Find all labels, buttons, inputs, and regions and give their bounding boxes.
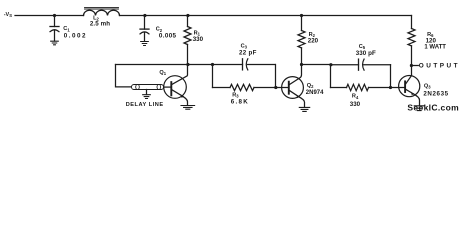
wire collector node line Q1 (y=64) [116, 64, 243, 66]
ground below C1 [51, 41, 59, 45]
wire top rail left segment [15, 15, 84, 17]
svg-text:0.005: 0.005 [159, 32, 177, 39]
capacitor C2 [140, 16, 177, 42]
junction C2 tap on rail [143, 14, 146, 17]
capacitor C1 [50, 16, 87, 42]
wire Q2 collector node to C5-R4 block [302, 64, 331, 66]
resistor R3 [230, 84, 254, 105]
svg-text:220: 220 [308, 37, 319, 44]
junction C5-R4 block left tee [329, 63, 332, 66]
transistor Q3 [399, 75, 449, 105]
inductor L2 [84, 7, 120, 27]
wire to Q3 base [391, 87, 405, 89]
wire to Q2 base [276, 87, 289, 89]
svg-text:R4: R4 [352, 94, 359, 100]
wire C5-R4 block right bar [390, 65, 392, 88]
wire OUTPUT node to Q3 collector [411, 66, 413, 76]
capacitor C3 [239, 43, 257, 70]
wire R4 right lead [369, 87, 391, 89]
transistor Q1 [159, 65, 187, 106]
wire right rail drop to R6 [411, 16, 413, 29]
svg-text:2N974: 2N974 [306, 90, 324, 96]
svg-text:Q2: Q2 [307, 83, 314, 89]
wire C5 right lead [364, 64, 391, 66]
wire delay line center tap [146, 90, 148, 95]
svg-text:0.002: 0.002 [64, 33, 87, 40]
svg-text:C3: C3 [241, 43, 248, 49]
resistor R4 [347, 84, 369, 108]
resistor R2 [298, 16, 319, 65]
wire delay line loop (left drop) [116, 65, 132, 87]
svg-text:330 pF: 330 pF [356, 50, 376, 57]
resistor R1 [184, 16, 204, 65]
junction R2 bottom / Q2 collector node [300, 63, 303, 66]
svg-text:6.8K: 6.8K [231, 99, 249, 106]
wire C3-R3 block left bar [212, 65, 214, 88]
wire R4 left lead [331, 87, 347, 89]
svg-text:22 pF: 22 pF [239, 50, 257, 57]
svg-text:C1: C1 [63, 26, 70, 32]
node OUTPUT label [419, 62, 460, 69]
watermark SeekIC.com [407, 102, 459, 112]
transistor Q2 [282, 65, 325, 107]
ground below Q3 emitter [414, 106, 424, 111]
wire C5 left lead [331, 64, 359, 66]
junction R1 top on rail [186, 14, 189, 17]
wire output tick [412, 65, 419, 67]
svg-text:OUTPUT: OUTPUT [419, 62, 460, 69]
junction R2 top on rail [300, 14, 303, 17]
svg-text:330: 330 [193, 36, 204, 43]
svg-text:1 WATT: 1 WATT [424, 45, 446, 51]
junction OUTPUT node [410, 64, 413, 67]
junction C5-R4 block right / Q3 base node [389, 86, 392, 89]
svg-text:2N2635: 2N2635 [423, 90, 448, 97]
ground below Q1 emitter [181, 106, 195, 110]
junction R1 bottom / Q1 collector node [186, 63, 189, 66]
wire delay line to Q1 base [164, 86, 171, 88]
wire R3 left lead [213, 87, 231, 89]
svg-text:Q1: Q1 [159, 70, 166, 76]
delay line DL1 [126, 85, 164, 109]
wire C3-R3 block right bar [275, 65, 277, 88]
svg-text:2.5 mh: 2.5 mh [90, 21, 110, 28]
wire C3 right lead [247, 64, 275, 66]
svg-text:-VS: -VS [4, 12, 13, 18]
svg-text:DELAY LINE: DELAY LINE [126, 102, 164, 108]
wire R3 right lead [254, 87, 276, 89]
wire top rail mid segment [120, 15, 412, 17]
capacitor C5 [356, 44, 376, 70]
junction C3-R3 block left tee [211, 63, 214, 66]
node -Vs supply label [4, 12, 13, 18]
svg-text:SeekIC.com: SeekIC.com [407, 102, 459, 112]
junction C1 tap on rail [53, 14, 56, 17]
ground below C2 [141, 42, 149, 46]
svg-text:330: 330 [350, 101, 361, 108]
resistor R6 [408, 29, 446, 66]
junction C3-R3 block right / Q2 base node [274, 86, 277, 89]
ground below Q2 emitter [299, 107, 309, 111]
svg-text:Q3: Q3 [424, 83, 431, 89]
wire C5-R4 block left bar [330, 65, 332, 88]
ground below delay line [143, 95, 151, 99]
